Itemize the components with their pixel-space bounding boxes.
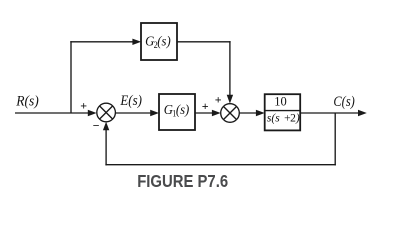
svg-text:R(s): R(s) — [15, 93, 39, 109]
block G1 — [159, 94, 195, 130]
wire G1 to summer S2 — [195, 110, 221, 116]
svg-text:FIGURE P7.6: FIGURE P7.6 — [137, 172, 228, 191]
block plant 10/s(s+2) — [265, 94, 301, 130]
svg-text:E(s): E(s) — [120, 93, 142, 109]
svg-text:+: + — [215, 93, 222, 107]
svg-text:−: − — [93, 119, 100, 133]
svg-text:C(s): C(s) — [333, 94, 354, 110]
wire feedback from output tap down, left, and up into S1 — [103, 113, 336, 165]
wire output to C(s) — [300, 110, 367, 116]
svg-text:10: 10 — [274, 95, 287, 109]
wire input R(s) to summer S1 — [15, 110, 97, 116]
svg-text:+: + — [202, 99, 209, 113]
wire S2 to plant block — [239, 110, 264, 116]
summer S1 — [97, 103, 116, 122]
summer S2 — [221, 104, 240, 123]
block G2 — [141, 23, 177, 60]
svg-text:G1(s): G1(s) — [164, 103, 190, 119]
wire G2 to summer S2 top — [177, 41, 233, 104]
svg-text:+: + — [80, 99, 87, 113]
svg-text:G2(s): G2(s) — [145, 34, 171, 50]
wire S1 to G1 — [115, 110, 159, 116]
wire branch from input line up and right into G2 — [70, 39, 141, 113]
svg-text:s(s+2): s(s+2) — [267, 112, 300, 124]
